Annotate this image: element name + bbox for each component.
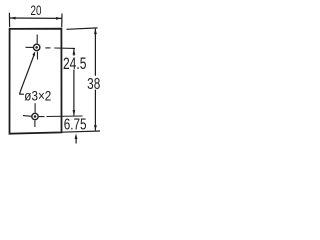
dim 38 extension line bottom: [62, 131, 101, 132]
hole 2 centerline vertical below: [34, 121, 36, 128]
hole 1 circle: [34, 44, 40, 50]
hole 2 centerline horizontal right dash: [39, 116, 45, 118]
hole 1 centerline vertical above: [36, 35, 38, 44]
dim 38 arrow up: [94, 28, 97, 34]
leader line diagonal: [20, 54, 35, 93]
hole 1 centerline horizontal right dash: [45, 47, 50, 49]
hole 2 circle: [32, 113, 38, 119]
hole 2 centerline horizontal right long: [47, 115, 83, 118]
svg-text:24.5: 24.5: [63, 55, 86, 73]
hole 1 center dot: [35, 46, 38, 49]
dim 24.5 label halo: [63, 56, 87, 69]
dim 20 arrow right: [56, 17, 62, 20]
hole 2 centerline horizontal left: [23, 115, 31, 118]
dim 20 arrow left: [10, 17, 16, 20]
hole 2 center dot: [34, 115, 37, 118]
dim 20 extension line left: [8, 13, 10, 27]
dim 20 dimension line: [10, 17, 62, 19]
dim 6.75 bottom arrow: [75, 133, 78, 139]
dim 6.75 label halo: [64, 118, 87, 130]
dim 38 arrow down: [94, 125, 97, 131]
svg-text:20: 20: [31, 3, 42, 19]
hole 1 centerline vertical below: [36, 52, 38, 60]
plate outline: [10, 29, 62, 134]
dim 24.5 arrow up: [73, 49, 76, 55]
dim 24.5 dimension line lower: [73, 70, 75, 116]
leader arrowhead: [32, 51, 35, 56]
leader bend: [20, 92, 24, 94]
dim 38 dimension line upper: [94, 29, 96, 76]
svg-text:ø3×2: ø3×2: [24, 87, 51, 103]
svg-text:38: 38: [87, 76, 100, 93]
hole 1 centerline horizontal right long: [54, 47, 75, 49]
svg-text:6.75: 6.75: [64, 117, 87, 134]
dim 38 extension line top: [67, 28, 98, 29]
hole 2 centerline vertical above: [34, 103, 36, 112]
dim 6.75 bottom arrow tail: [75, 138, 77, 144]
dim 24.5 arrow down: [73, 110, 76, 116]
dim 20 extension line right: [61, 14, 63, 28]
dim 24.5 dimension line upper stub: [73, 49, 75, 56]
hole 1 centerline horizontal left: [26, 46, 33, 48]
dim 38 dimension line lower: [94, 90, 96, 131]
